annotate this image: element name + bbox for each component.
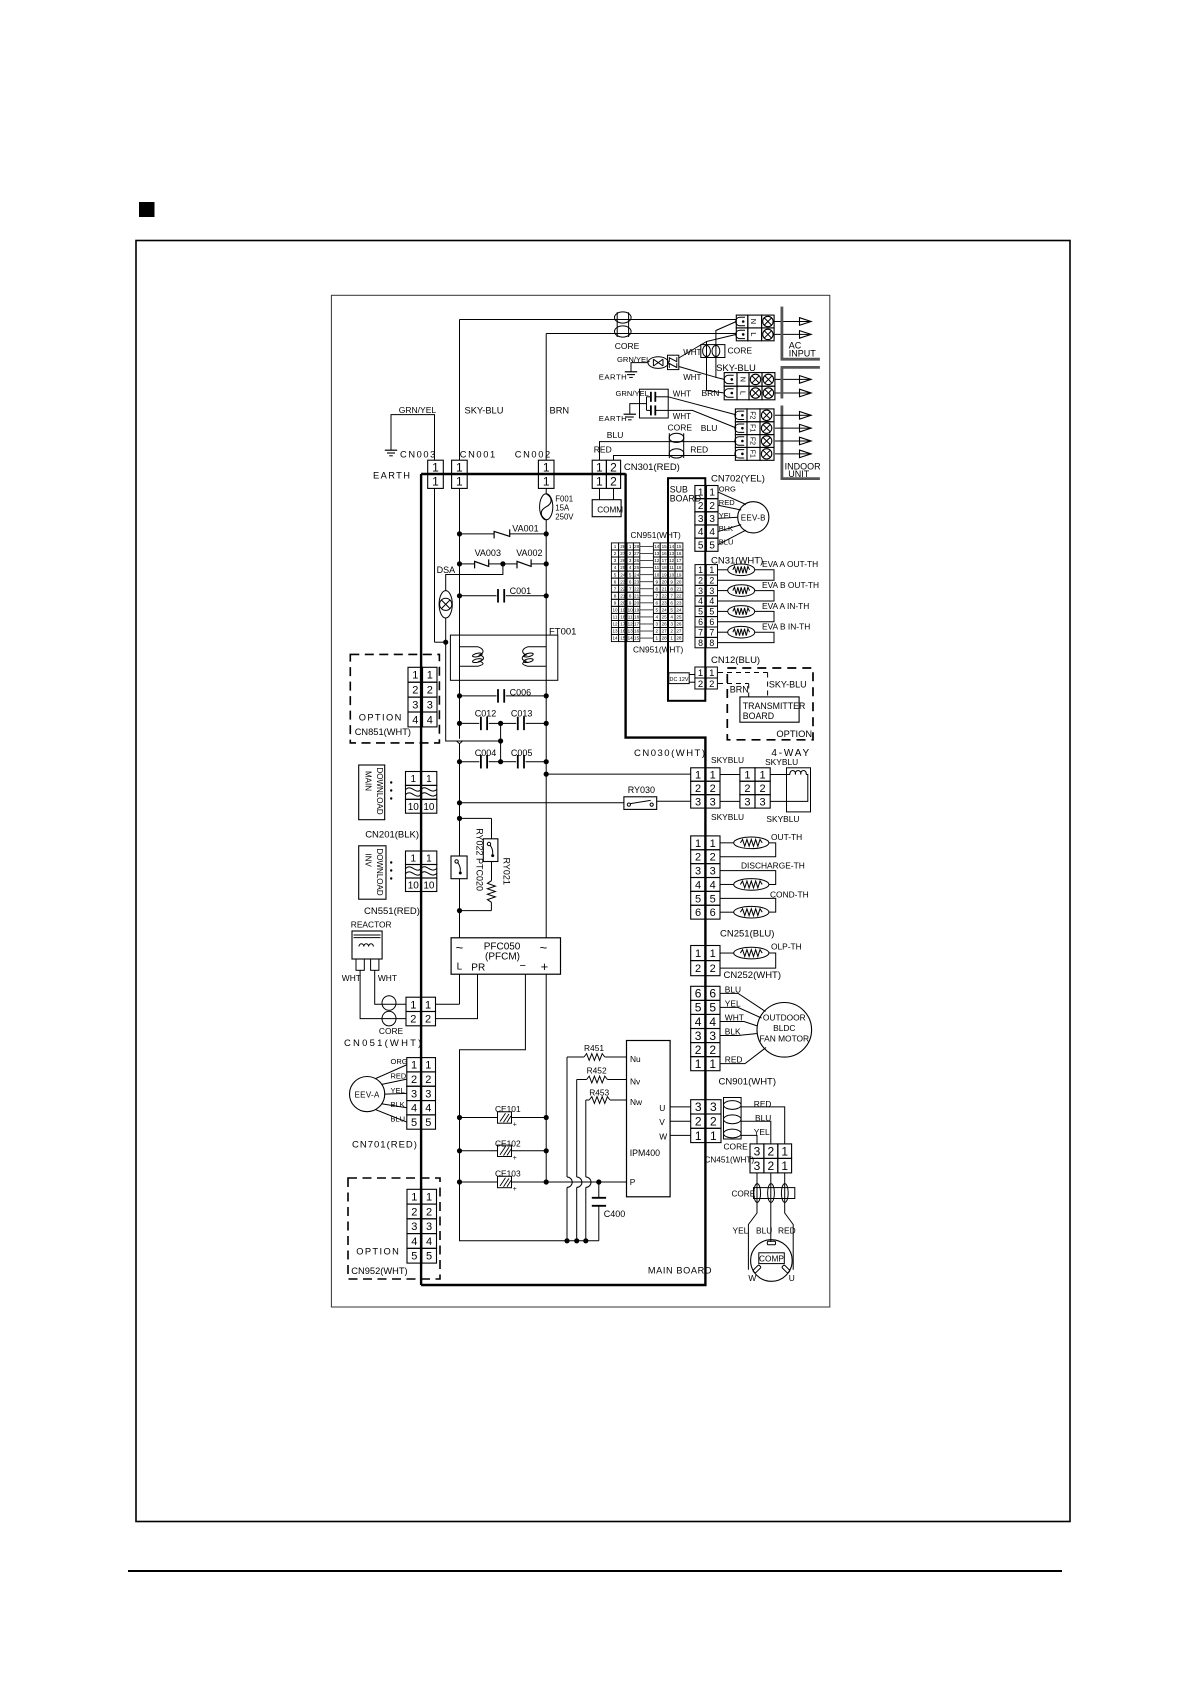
svg-text:R452: R452 <box>587 1065 607 1075</box>
connector CN901 <box>691 986 706 1000</box>
svg-text:~: ~ <box>456 940 464 955</box>
core on indoor pair <box>669 433 684 442</box>
svg-text:1: 1 <box>670 636 673 641</box>
svg-text:1: 1 <box>709 668 714 679</box>
capacitor C400 <box>598 1182 600 1198</box>
svg-text:YEL: YEL <box>719 511 733 520</box>
svg-text:1: 1 <box>695 1057 702 1071</box>
svg-text:4: 4 <box>698 596 703 606</box>
indoor unit bracket top <box>781 366 820 369</box>
svg-text:21: 21 <box>634 593 640 598</box>
svg-text:14: 14 <box>612 636 618 641</box>
svg-text:6: 6 <box>656 600 659 605</box>
thermistor EVA B IN-TH <box>718 631 728 633</box>
svg-text:10: 10 <box>423 880 435 891</box>
svg-text:1: 1 <box>426 1192 432 1204</box>
svg-text:~: ~ <box>540 940 548 955</box>
arrows indoor F <box>800 414 812 416</box>
svg-text:1: 1 <box>432 475 439 489</box>
svg-text:SKYBLU: SKYBLU <box>711 812 744 822</box>
wire to CN030 pin1 <box>546 773 691 775</box>
svg-text:3: 3 <box>695 1029 702 1043</box>
svg-text:1: 1 <box>425 1060 431 1072</box>
svg-text:11: 11 <box>613 615 618 620</box>
PTC020 <box>491 862 493 881</box>
svg-text:4: 4 <box>425 1103 431 1115</box>
relay RY021 <box>451 856 467 879</box>
terminal block AC INPUT N/L <box>736 315 748 328</box>
svg-text:1: 1 <box>695 838 701 850</box>
svg-text:2: 2 <box>710 963 716 975</box>
svg-text:10: 10 <box>423 802 435 813</box>
svg-text:+: + <box>513 1186 517 1193</box>
svg-text:P: P <box>630 1177 636 1187</box>
wire relay branch bottom <box>460 910 492 912</box>
svg-text:1: 1 <box>710 838 716 850</box>
schematic frame <box>331 295 829 1307</box>
svg-text:7: 7 <box>656 593 659 598</box>
svg-text:BLK: BLK <box>719 524 733 533</box>
svg-text:WHT: WHT <box>725 1012 744 1022</box>
svg-text:16: 16 <box>662 551 668 556</box>
svg-text:1: 1 <box>614 544 617 549</box>
arrow AC out 2 <box>800 333 812 335</box>
svg-text:R451: R451 <box>584 1043 604 1053</box>
transmitter option box (dashed) <box>727 668 813 740</box>
svg-text:10: 10 <box>628 608 634 613</box>
svg-text:C004: C004 <box>475 748 497 758</box>
svg-text:L: L <box>739 391 748 395</box>
wire mid caps <box>500 723 502 761</box>
svg-text:CN951(WHT): CN951(WHT) <box>633 644 683 654</box>
svg-text:RY022 PTC020: RY022 PTC020 <box>475 828 485 891</box>
svg-text:F001: F001 <box>555 494 573 503</box>
svg-text:21: 21 <box>662 586 668 591</box>
svg-text:BLK: BLK <box>391 1100 405 1109</box>
svg-text:DSA: DSA <box>437 565 456 575</box>
svg-text:3: 3 <box>754 1144 761 1158</box>
svg-text:13: 13 <box>612 629 618 634</box>
svg-text:PFC050: PFC050 <box>484 941 521 952</box>
svg-text:SKY-BLU: SKY-BLU <box>465 406 504 416</box>
svg-text:6: 6 <box>695 987 702 1001</box>
svg-text:3: 3 <box>698 514 704 525</box>
svg-text:−: − <box>520 960 526 972</box>
EEV-B motor <box>738 502 769 533</box>
svg-text:1: 1 <box>456 461 463 475</box>
EEV-A motor <box>350 1077 385 1112</box>
svg-text:2: 2 <box>411 1074 417 1086</box>
svg-text:Nu: Nu <box>630 1054 641 1064</box>
4-way valve coil <box>787 768 811 812</box>
svg-text:16: 16 <box>676 551 682 556</box>
svg-text:5: 5 <box>629 572 632 577</box>
svg-text:28: 28 <box>620 544 626 549</box>
svg-text:3: 3 <box>695 796 701 808</box>
svg-text:15: 15 <box>676 544 682 549</box>
svg-text:4: 4 <box>710 879 716 891</box>
wire RED CN301 pin2 <box>614 456 737 461</box>
svg-text:7: 7 <box>614 586 617 591</box>
svg-text:CN702(YEL): CN702(YEL) <box>711 473 765 484</box>
svg-text:WHT: WHT <box>342 973 361 983</box>
svg-text:24: 24 <box>620 572 626 577</box>
svg-text:BLK: BLK <box>725 1027 741 1037</box>
svg-text:REACTOR: REACTOR <box>351 919 392 929</box>
svg-text:25: 25 <box>662 615 668 620</box>
svg-text:RED: RED <box>690 444 708 454</box>
wire RY030 to CN030 pin3 <box>657 800 691 802</box>
svg-text:15A: 15A <box>555 504 570 513</box>
capacitor C004 <box>460 761 480 763</box>
svg-text:EARTH: EARTH <box>599 372 627 381</box>
svg-text:C400: C400 <box>604 1209 626 1219</box>
svg-text:CN951(WHT): CN951(WHT) <box>631 530 681 540</box>
wire to AC arrows <box>774 321 799 323</box>
svg-text:14: 14 <box>628 636 634 641</box>
transmitter board box <box>740 697 799 722</box>
svg-text:CN701(RED): CN701(RED) <box>352 1140 418 1151</box>
svg-text:11: 11 <box>669 565 674 570</box>
thermistor DISCHARGE-TH <box>720 871 776 885</box>
svg-text:3: 3 <box>425 1088 431 1100</box>
svg-text:DOWNLOAD: DOWNLOAD <box>375 768 384 815</box>
relay RY022 <box>483 839 498 862</box>
svg-text:WHT: WHT <box>378 973 397 983</box>
capacitor C001 <box>460 595 497 597</box>
svg-text:WHT: WHT <box>673 412 691 421</box>
connector CN952 <box>407 1189 422 1204</box>
svg-text:12: 12 <box>612 622 618 627</box>
wire drop L to core2 <box>707 334 737 393</box>
svg-text:CORE: CORE <box>615 341 640 351</box>
svg-text:6: 6 <box>710 907 716 919</box>
svg-text:CN251(BLU): CN251(BLU) <box>720 929 774 940</box>
svg-text:+: + <box>513 1155 517 1162</box>
fan wires <box>720 993 766 1011</box>
svg-text:3: 3 <box>709 586 714 596</box>
svg-text:27: 27 <box>620 551 626 556</box>
svg-text:1: 1 <box>426 774 432 785</box>
svg-text:EARTH: EARTH <box>373 470 411 480</box>
svg-text:F1: F1 <box>748 450 755 458</box>
svg-text:4: 4 <box>614 565 617 570</box>
svg-text:23: 23 <box>620 579 626 584</box>
svg-text:4: 4 <box>709 527 715 538</box>
svg-text:2: 2 <box>695 1114 702 1128</box>
svg-text:CE101: CE101 <box>495 1104 521 1114</box>
svg-text:CN301(RED): CN301(RED) <box>624 462 680 473</box>
svg-text:1: 1 <box>456 475 463 489</box>
svg-text:9: 9 <box>629 600 632 605</box>
svg-text:20: 20 <box>634 600 640 605</box>
svg-text:TRANSMITTER: TRANSMITTER <box>743 701 806 711</box>
svg-text:17: 17 <box>634 622 640 627</box>
svg-text:5: 5 <box>695 1001 702 1015</box>
svg-text:EVA B OUT-TH: EVA B OUT-TH <box>762 580 819 590</box>
varistor VA002 <box>503 563 517 565</box>
svg-text:10: 10 <box>654 572 660 577</box>
svg-text:ORG: ORG <box>391 1057 408 1066</box>
svg-text:9: 9 <box>670 579 673 584</box>
svg-text:19: 19 <box>620 608 626 613</box>
svg-text:4: 4 <box>709 596 714 606</box>
svg-text:IPM400: IPM400 <box>630 1148 660 1158</box>
svg-text:1: 1 <box>695 948 701 960</box>
svg-text:EEV-A: EEV-A <box>355 1090 380 1099</box>
terminal block 2 N/L <box>724 373 737 387</box>
svg-text:3: 3 <box>710 796 716 808</box>
svg-text:CE103: CE103 <box>495 1168 521 1178</box>
svg-text:15: 15 <box>634 636 640 641</box>
svg-text:F2: F2 <box>748 411 755 419</box>
svg-text:4: 4 <box>670 615 673 620</box>
svg-text:CORE: CORE <box>732 1190 756 1199</box>
svg-text:8: 8 <box>656 586 659 591</box>
connector CN851 <box>408 667 423 682</box>
svg-text:22: 22 <box>676 593 682 598</box>
svg-text:GRN/YEL: GRN/YEL <box>399 405 437 415</box>
svg-text:10: 10 <box>408 802 420 813</box>
svg-text:3: 3 <box>629 558 632 563</box>
svg-text:5: 5 <box>656 608 659 613</box>
svg-text:18: 18 <box>634 615 640 620</box>
svg-text:26: 26 <box>662 622 668 627</box>
svg-text:EARTH: EARTH <box>599 414 627 423</box>
svg-text:+: + <box>541 959 549 974</box>
svg-text:DOWNLOAD: DOWNLOAD <box>375 849 384 896</box>
svg-text:2: 2 <box>610 475 617 489</box>
dots main download <box>390 781 392 783</box>
svg-text:CN252(WHT): CN252(WHT) <box>724 970 782 981</box>
N rail bottom <box>460 1182 599 1241</box>
svg-text:17: 17 <box>676 558 682 563</box>
svg-text:4: 4 <box>709 1015 716 1029</box>
svg-text:12: 12 <box>654 558 660 563</box>
svg-text:5: 5 <box>695 893 701 905</box>
svg-text:4: 4 <box>695 1015 702 1029</box>
svg-text:1: 1 <box>781 1159 788 1173</box>
svg-text:8: 8 <box>614 593 617 598</box>
svg-text:250V: 250V <box>555 512 574 521</box>
svg-text:1: 1 <box>709 1057 716 1071</box>
svg-text:22: 22 <box>620 586 626 591</box>
wire AC L to terminal <box>546 333 736 335</box>
wire BRN bus CN002 <box>545 334 547 461</box>
svg-text:F2: F2 <box>748 437 755 445</box>
svg-text:BRN: BRN <box>550 406 570 416</box>
svg-text:OLP-TH: OLP-TH <box>771 941 802 951</box>
svg-text:CORE: CORE <box>728 345 753 355</box>
wire arrester to earth <box>631 363 648 372</box>
svg-text:4: 4 <box>629 565 632 570</box>
svg-text:1: 1 <box>411 1192 417 1204</box>
svg-text:MAIN: MAIN <box>364 771 373 791</box>
svg-text:BOARD: BOARD <box>743 711 774 721</box>
sub board outline (thick) <box>668 478 705 701</box>
svg-text:3: 3 <box>709 1029 716 1043</box>
dots inv download <box>390 861 392 863</box>
svg-text:1: 1 <box>411 1060 417 1072</box>
PFC050 box <box>451 938 560 974</box>
main download box <box>359 765 385 820</box>
svg-text:2: 2 <box>411 1206 417 1218</box>
svg-text:1: 1 <box>710 769 716 781</box>
svg-text:21: 21 <box>620 593 626 598</box>
capacitor C006 <box>460 695 497 697</box>
svg-text:CN851(WHT): CN851(WHT) <box>355 727 411 737</box>
svg-text:7: 7 <box>698 627 703 637</box>
svg-text:YEL: YEL <box>754 1127 770 1137</box>
svg-text:2: 2 <box>656 629 659 634</box>
svg-text:2: 2 <box>710 852 716 864</box>
wire arrester WHT upper <box>679 342 707 359</box>
earth symbol 2 <box>624 413 636 415</box>
wire earth drop from CN003 <box>434 488 436 642</box>
svg-text:2: 2 <box>710 783 716 795</box>
svg-text:3: 3 <box>760 796 766 808</box>
svg-text:5: 5 <box>614 572 617 577</box>
svg-text:CN003: CN003 <box>400 449 437 459</box>
arrow AC out 1 <box>800 321 812 323</box>
svg-text:6: 6 <box>698 617 703 627</box>
svg-text:2: 2 <box>410 1014 416 1026</box>
wire capbox WHT lower <box>668 410 736 428</box>
svg-text:4: 4 <box>411 1236 417 1248</box>
svg-text:CN002: CN002 <box>515 449 552 459</box>
svg-text:17: 17 <box>662 558 668 563</box>
wires IPM to CN451 <box>670 1106 691 1108</box>
svg-text:20: 20 <box>620 600 626 605</box>
svg-text:OPTION: OPTION <box>776 729 812 739</box>
svg-text:11: 11 <box>628 615 633 620</box>
svg-text:CORE: CORE <box>668 423 693 433</box>
connector CN951 sub side <box>653 543 660 550</box>
junction earth/DSA <box>443 640 448 645</box>
svg-text:N: N <box>739 377 748 382</box>
svg-text:RY030: RY030 <box>628 785 655 795</box>
svg-text:RED: RED <box>754 1099 772 1109</box>
svg-text:BLU: BLU <box>391 1114 406 1123</box>
svg-text:1: 1 <box>543 475 550 489</box>
svg-text:20: 20 <box>676 579 682 584</box>
svg-text:14: 14 <box>654 544 660 549</box>
svg-text:UNIT: UNIT <box>788 469 809 479</box>
wire BLU CN301 pin1 <box>600 442 737 461</box>
svg-text:OUTDOOR: OUTDOOR <box>763 1013 806 1023</box>
svg-text:RED: RED <box>594 444 612 454</box>
svg-text:1: 1 <box>695 1129 702 1143</box>
svg-text:BLU: BLU <box>607 430 624 440</box>
svg-text:4: 4 <box>412 714 418 726</box>
svg-text:VA001: VA001 <box>512 523 538 533</box>
svg-text:22: 22 <box>662 593 668 598</box>
thermistor OLP-TH <box>720 952 734 954</box>
svg-text:4: 4 <box>695 879 701 891</box>
COMM box <box>592 500 621 517</box>
svg-text:INV: INV <box>364 854 373 868</box>
svg-text:R453: R453 <box>589 1088 609 1098</box>
svg-text:15: 15 <box>620 636 626 641</box>
wire PFC plus <box>545 974 547 1182</box>
svg-text:COMM: COMM <box>597 505 623 514</box>
wires CN951 link <box>640 545 654 547</box>
resistor R453 <box>586 1099 589 1101</box>
svg-text:27: 27 <box>634 551 640 556</box>
svg-text:C006: C006 <box>510 687 532 697</box>
svg-text:U: U <box>789 1273 795 1283</box>
wire block2 out 1 <box>775 378 800 380</box>
svg-text:1: 1 <box>596 461 603 475</box>
svg-text:6: 6 <box>709 987 716 1001</box>
svg-text:FT001: FT001 <box>549 626 576 637</box>
svg-text:C012: C012 <box>475 709 497 719</box>
svg-text:3: 3 <box>695 866 701 878</box>
wire block2 out 2 <box>775 392 800 394</box>
svg-text:1: 1 <box>710 948 716 960</box>
svg-text:7: 7 <box>709 627 714 637</box>
svg-text:5: 5 <box>709 540 715 551</box>
svg-text:10: 10 <box>612 608 618 613</box>
svg-text:MAIN BOARD: MAIN BOARD <box>648 1265 712 1275</box>
svg-text:3: 3 <box>695 1100 702 1114</box>
fan motor <box>757 1003 812 1058</box>
svg-text:CORE: CORE <box>724 1141 749 1151</box>
svg-text:28: 28 <box>676 636 682 641</box>
svg-text:2: 2 <box>744 783 750 795</box>
shunt drops with hops <box>566 1057 568 1177</box>
svg-text:RED: RED <box>725 1055 743 1065</box>
svg-text:SKY-BLU: SKY-BLU <box>769 679 807 689</box>
svg-text:2: 2 <box>670 629 673 634</box>
wires CN030 to 4-way <box>720 774 740 776</box>
svg-text:2: 2 <box>614 551 617 556</box>
svg-text:11: 11 <box>654 565 659 570</box>
svg-text:PR: PR <box>471 963 485 974</box>
svg-text:3: 3 <box>670 622 673 627</box>
connector CN051 <box>406 997 421 1011</box>
svg-text:5: 5 <box>426 1251 432 1263</box>
svg-text:3: 3 <box>614 558 617 563</box>
section marker square <box>139 202 155 217</box>
svg-text:4: 4 <box>426 1236 432 1248</box>
thermistor OUT-TH <box>720 842 734 844</box>
svg-text:W: W <box>748 1273 756 1283</box>
svg-text:2: 2 <box>695 963 701 975</box>
P rail <box>546 1181 626 1183</box>
svg-text:SKYBLU: SKYBLU <box>711 755 744 765</box>
svg-text:5: 5 <box>709 607 714 617</box>
AC INPUT bracket <box>781 307 784 361</box>
relay RY030 <box>624 797 657 810</box>
svg-text:WHT: WHT <box>683 348 701 357</box>
svg-text:1: 1 <box>709 488 715 499</box>
svg-text:Nw: Nw <box>630 1097 643 1107</box>
svg-text:16: 16 <box>634 629 640 634</box>
connector CN551 <box>406 851 422 865</box>
svg-text:12: 12 <box>669 558 675 563</box>
varistor VA003 <box>460 563 475 565</box>
wire drop N to core2 <box>716 322 736 380</box>
svg-text:SKYBLU: SKYBLU <box>765 757 798 767</box>
svg-text:1: 1 <box>427 670 433 682</box>
svg-text:3: 3 <box>412 700 418 712</box>
svg-text:ORG: ORG <box>719 485 736 494</box>
wire AC N to terminal <box>460 319 737 321</box>
svg-text:2: 2 <box>709 679 714 690</box>
svg-text:1: 1 <box>410 999 416 1011</box>
svg-text:5: 5 <box>709 1001 716 1015</box>
